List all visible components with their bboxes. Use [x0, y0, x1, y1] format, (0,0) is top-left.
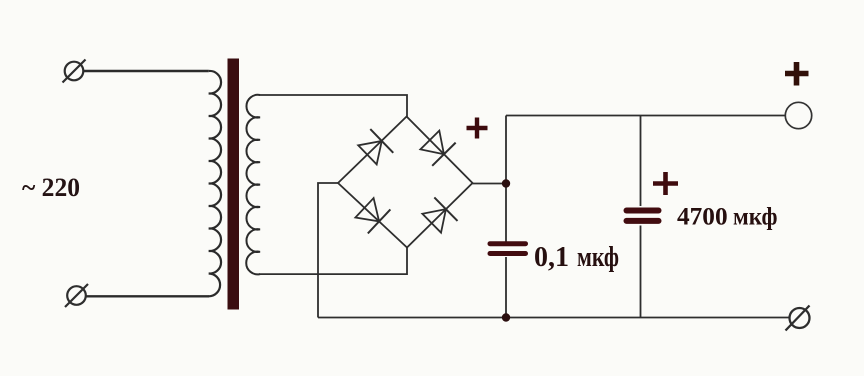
- node junction dot at bottom rail: [502, 313, 510, 321]
- wire bridge right vertex to plus node: [473, 183, 507, 185]
- capacitor C1 plates: [490, 244, 526, 254]
- wire C2 branch lower: [640, 226, 642, 318]
- wire C2 branch upper: [640, 116, 642, 207]
- plus sign at bridge output: [467, 118, 488, 139]
- node junction dot at plus rail: [502, 179, 510, 187]
- transformer T1 core: [228, 59, 240, 310]
- terminal X1 top-left input: [63, 60, 86, 83]
- svg-text:4700: 4700: [677, 202, 728, 230]
- svg-text:0,1: 0,1: [534, 242, 569, 273]
- wire top-left terminal to primary: [83, 70, 209, 72]
- transformer T1 secondary winding: [246, 95, 260, 275]
- diode VD1 bridge top-left: [356, 129, 393, 167]
- diode VD2 bridge top-right: [418, 128, 456, 165]
- bridge diamond wires: [338, 117, 473, 248]
- wire top plus rail: [506, 115, 786, 117]
- wire bottom minus rail: [318, 317, 790, 319]
- svg-text:мкф: мкф: [577, 242, 619, 273]
- svg-text:~ 220: ~ 220: [22, 173, 80, 202]
- wire secondary bottom to bridge bottom vertex: [259, 248, 407, 275]
- wire plus rail vertical lower: [505, 257, 507, 318]
- svg-text:мкф: мкф: [733, 202, 778, 230]
- capacitor C2 plates: [627, 211, 659, 221]
- wire secondary top to bridge: [259, 95, 407, 117]
- wire bridge left vertex down to minus rail: [318, 183, 338, 318]
- diode VD3 bridge bottom-left: [353, 196, 390, 234]
- terminal X2 bottom-left input: [65, 284, 88, 307]
- plus sign at output terminal: [785, 62, 809, 86]
- wire bottom-left terminal to primary: [86, 295, 209, 297]
- terminal minus output: [786, 306, 810, 331]
- terminal plus output: [785, 102, 811, 128]
- wire plus rail vertical upper: [505, 116, 507, 242]
- plus sign at C2: [653, 172, 678, 195]
- transformer T1 primary winding: [209, 71, 221, 296]
- diode VD4 bridge bottom-right: [420, 197, 457, 235]
